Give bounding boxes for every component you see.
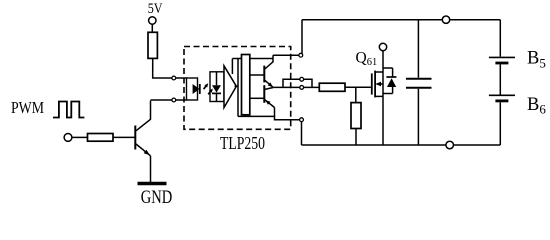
wire	[151, 24, 153, 32]
pin 6 circle	[300, 77, 304, 81]
wire	[499, 64, 501, 94]
ground	[138, 182, 167, 185]
stub	[245, 115, 247, 117]
pin 7 circle	[300, 86, 304, 90]
bottom rail	[302, 144, 501, 146]
body diode D3	[383, 68, 396, 94]
vcc stub	[231, 59, 233, 75]
svg-text:B6: B6	[527, 95, 546, 117]
pin circle (cathode)	[172, 98, 176, 102]
wire	[72, 136, 88, 138]
transistor Q2 (NPN, totem top)	[264, 55, 273, 87]
photodiode D2	[212, 72, 221, 102]
drain terminal	[379, 43, 386, 50]
wire (amp out)	[235, 85, 239, 87]
top rail	[302, 19, 500, 21]
wire (riser to top rail)	[301, 20, 303, 54]
TLP250 dashed box	[184, 47, 291, 130]
top terminal	[442, 16, 449, 23]
resistor R2 (base)	[88, 134, 114, 142]
wire	[355, 129, 357, 146]
svg-text:GND: GND	[141, 188, 173, 206]
wire	[176, 77, 187, 79]
svg-text:TLP250: TLP250	[220, 133, 265, 153]
photodiode box	[210, 72, 224, 102]
resistor R4 (gate pulldown)	[351, 103, 361, 129]
wire (collector to pin)	[151, 99, 173, 101]
pin 5 circle	[300, 118, 304, 122]
output link	[283, 79, 312, 87]
wire	[345, 86, 371, 88]
rail to pin 8	[273, 54, 299, 56]
transistor Q1 (NPN driver)	[135, 101, 150, 156]
wire (right top)	[499, 20, 501, 57]
transistor Q3 (PNP, totem bottom)	[264, 85, 274, 116]
resistor R1 (5V pull-up)	[148, 32, 157, 58]
svg-text:5V: 5V	[148, 1, 163, 17]
resistor R3 (gate)	[319, 83, 345, 91]
vertical link	[237, 59, 239, 117]
bottom terminal	[446, 141, 454, 149]
internal top rail	[232, 58, 273, 60]
PWM waveform	[53, 102, 84, 118]
battery B5	[489, 57, 515, 63]
base wire (bottom)	[250, 97, 264, 99]
capacitor C1	[406, 20, 432, 145]
wire	[176, 99, 187, 101]
internal bottom rail	[238, 116, 300, 119]
battery B6	[489, 95, 515, 101]
pin 8 circle	[299, 53, 303, 57]
wire (junction down)	[355, 87, 357, 102]
output wire	[273, 86, 319, 88]
input terminal	[64, 134, 72, 142]
pin circle (anode)	[172, 76, 176, 80]
wire (emitter down)	[150, 156, 152, 182]
MOSFET Q61	[372, 51, 383, 145]
wire	[499, 102, 501, 145]
base wire (top)	[250, 74, 264, 76]
op-amp U1 (receiver amp)	[224, 66, 236, 108]
5V terminal	[149, 17, 156, 24]
LED loop	[187, 78, 198, 100]
svg-text:B5: B5	[527, 49, 546, 71]
LED D1	[193, 84, 200, 94]
wire (drop to bottom rail)	[301, 122, 303, 145]
wire	[153, 58, 172, 78]
driver block	[242, 55, 250, 115]
svg-text:Q61: Q61	[356, 50, 378, 69]
svg-text:PWM: PWM	[11, 98, 44, 117]
wire	[113, 136, 135, 138]
light arrows	[204, 83, 213, 94]
